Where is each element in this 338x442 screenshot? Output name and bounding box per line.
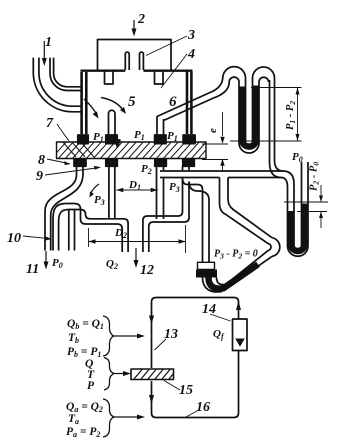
node pin blob above plate N2 <box>106 135 117 144</box>
arrow into loop upper <box>114 335 139 337</box>
wire exit inner elbow top line into pipe2 <box>53 204 66 251</box>
node pin blob below plate B <box>106 159 118 167</box>
leader line for 4 <box>161 54 187 88</box>
node tap B tube below plate <box>109 167 115 220</box>
leader line for 15 <box>164 381 180 391</box>
wire exit inner elbow bottom line to floor top and Q2 channel inner <box>69 210 128 253</box>
flow arrow in chamber left <box>84 99 97 115</box>
svg-text:14: 14 <box>202 302 216 317</box>
wire inlet pipe 1 left inner wall <box>39 58 81 107</box>
wire cavity right wall inner to floor top and Q2 channel <box>143 178 183 252</box>
svg-text:P0: P0 <box>292 151 303 164</box>
node vessel right wall / nozzle N4 tube <box>186 72 189 135</box>
node pin blob above plate N1 <box>78 135 88 144</box>
svg-text:6: 6 <box>169 94 177 110</box>
svg-text:P1 - P2: P1 - P2 <box>285 101 297 130</box>
svg-text:D2: D2 <box>114 227 127 240</box>
node pin blob below plate D <box>183 159 195 167</box>
leader line for 10 <box>23 236 46 238</box>
leader line for 7 <box>57 124 69 141</box>
svg-text:P3: P3 <box>169 181 180 194</box>
svg-text:5: 5 <box>128 94 136 110</box>
leader line for 8 <box>47 159 66 163</box>
dimension e upper arrow <box>202 112 228 160</box>
svg-text:Ta: Ta <box>68 413 79 426</box>
svg-text:12: 12 <box>140 263 154 278</box>
svg-text:15: 15 <box>179 383 193 398</box>
node pin blob above plate N3 <box>155 135 166 144</box>
svg-text:P3 - P2 = 0: P3 - P2 = 0 <box>214 249 258 261</box>
svg-text:2: 2 <box>137 12 145 27</box>
node pin blob below plate C <box>155 159 167 167</box>
node shoulder stub port left <box>105 72 114 85</box>
wire box bottom shelf right <box>143 69 192 71</box>
wire exit inner elbow top line to cavity wall and floor bottom to Q2 channel <box>66 204 122 253</box>
flow arrow in chamber right <box>101 98 124 112</box>
orifice plate hatching <box>50 140 222 160</box>
arrow up on loop right <box>236 301 241 310</box>
arrow into sensor 15 <box>114 373 125 375</box>
wire hanging exit pipe wall <box>69 210 75 251</box>
dimension D2 line <box>89 241 186 243</box>
svg-text:Qb = Q1: Qb = Q1 <box>67 318 104 331</box>
svg-text:P1: P1 <box>167 130 178 143</box>
wire cavity right wall outer to floor bottom and Q2 channel <box>149 182 189 252</box>
dimension P2-P0 arrowheads <box>319 196 323 219</box>
svg-text:10: 10 <box>7 231 21 246</box>
node counter-hatch marks at plate left <box>62 141 94 157</box>
node chimney slot 3 left wall <box>125 52 129 70</box>
dimension P2-P0 reference lines <box>284 185 328 228</box>
component resistor triangle <box>235 339 245 347</box>
node seal pot apex u-turn <box>272 238 280 257</box>
svg-text:P2: P2 <box>141 163 152 176</box>
node brace middle <box>104 358 114 391</box>
wire diagonal tube lower line <box>164 82 230 121</box>
svg-text:Q2: Q2 <box>106 258 118 271</box>
manometer U2 right leg and junction S-bend <box>270 80 288 246</box>
wire inlet pipe 1 right inner wall <box>54 58 81 87</box>
wire P3 branch to funnel line 1 <box>183 178 203 262</box>
node probe stub N3 <box>157 116 164 135</box>
node brace upper <box>103 316 114 356</box>
svg-text:8: 8 <box>38 153 45 168</box>
wire loop right top corner and arrow stem <box>234 298 239 320</box>
arrow down on loop left upper <box>149 316 154 325</box>
manometer 2 bottom bend <box>288 246 309 256</box>
node brace lower <box>103 399 114 437</box>
arrow label 2 <box>133 20 135 29</box>
leader line for 9 <box>45 168 96 175</box>
manometer U1 right leg walls <box>239 78 246 143</box>
svg-text:P: P <box>87 380 95 392</box>
component hatched sensor 15 <box>131 369 174 380</box>
svg-text:3: 3 <box>187 28 195 43</box>
orifice plate 7 outline <box>57 142 207 159</box>
node vessel left step wall / nozzle N1 left wall <box>80 72 83 134</box>
svg-text:11: 11 <box>26 262 39 277</box>
svg-text:16: 16 <box>196 400 210 415</box>
arrow jet onto plate <box>117 135 119 141</box>
leader line for 3 <box>146 36 187 56</box>
component funnel pot top <box>198 262 215 269</box>
wire diagonal tube N3 to manometer upper line <box>157 77 223 117</box>
dimension D2 extension lines <box>89 225 186 253</box>
component flow resistor 14 box <box>233 319 248 351</box>
wire loop right lower <box>152 351 239 418</box>
node cavity right wall top stubs <box>183 167 190 171</box>
svg-text:1: 1 <box>45 35 52 50</box>
arrow P0 exit 11 <box>45 251 47 263</box>
arrow label 1 <box>43 41 45 59</box>
wire exit inner elbow bottom line into pipe2 <box>59 210 69 251</box>
dimension D1 line <box>116 189 157 191</box>
wire seal pot lower arm mercury <box>209 264 259 288</box>
svg-text:Tb: Tb <box>68 332 79 345</box>
svg-text:4: 4 <box>187 47 195 62</box>
wire inlet pipe 1 left outer wall <box>33 58 80 112</box>
manometer U1 bottom bend <box>239 143 259 153</box>
node capped probe N2 <box>109 110 116 135</box>
node chimney slot 3 right wall <box>140 52 144 70</box>
node pin blob above plate N4 <box>183 135 195 144</box>
component funnel pot bottom black <box>196 270 217 278</box>
wire seal pot lower arm outline <box>203 256 273 292</box>
leader line for 14 <box>210 314 231 321</box>
svg-text:P1: P1 <box>134 129 145 142</box>
arrow Q2 exit 12 <box>135 248 137 261</box>
svg-text:P0: P0 <box>52 257 63 270</box>
svg-text:P2 - P0: P2 - P0 <box>309 162 321 191</box>
manometer U1 arch <box>223 67 246 78</box>
wire loop left side <box>152 298 235 369</box>
flow arrow below plate near P3 <box>91 184 100 194</box>
svg-text:Pa = P2: Pa = P2 <box>66 426 100 439</box>
wire tap A outer elbow to exit pipes <box>45 167 77 251</box>
manometer 2 right open leg P0 <box>302 162 309 246</box>
svg-text:13: 13 <box>164 327 178 342</box>
leader line for 16 <box>185 411 197 418</box>
dimension P1-P2 reference lines <box>230 88 302 142</box>
wire P2 sensing line horizontal pair <box>160 171 283 178</box>
dimension P1-P2 arrowheads <box>296 88 300 142</box>
node tap C tube below plate <box>157 167 164 220</box>
manometer U2 left leg walls <box>253 78 260 143</box>
arrow down on loop left lower <box>149 395 154 404</box>
manometer 1 mercury columns <box>242 86 256 147</box>
node nozzle N1 right wall <box>85 72 88 134</box>
svg-text:Qf: Qf <box>213 328 225 341</box>
wire branch to seal pot upper arm <box>220 178 269 244</box>
manometer U2 arch <box>253 67 275 78</box>
wire box bottom shelf left <box>81 69 126 71</box>
node pin blob below plate A <box>74 159 86 167</box>
svg-text:7: 7 <box>46 116 54 131</box>
wire top box outline <box>98 40 172 70</box>
leader line for 13 <box>155 339 167 350</box>
node shoulder stub port right <box>155 72 164 85</box>
svg-text:D1: D1 <box>128 179 141 192</box>
svg-text:P3: P3 <box>94 194 105 207</box>
wire inlet pipe 1 right outer wall <box>50 58 81 91</box>
svg-text:e: e <box>207 128 219 133</box>
arrow into loop lower <box>114 416 139 418</box>
dimension e lower arrow (plate underside) <box>222 159 224 171</box>
manometer 2 mercury <box>291 204 305 252</box>
svg-text:P1: P1 <box>93 131 104 144</box>
svg-text:9: 9 <box>36 169 43 184</box>
wire P3 branch to funnel line 2 <box>189 182 209 263</box>
